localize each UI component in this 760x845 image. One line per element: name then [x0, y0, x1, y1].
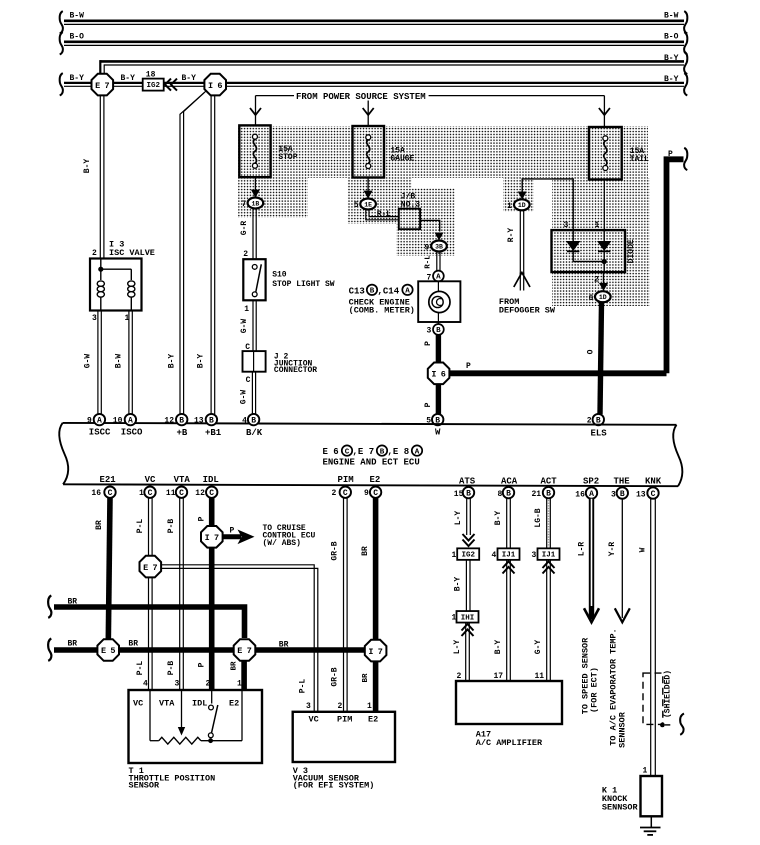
svg-text:17: 17 — [494, 672, 504, 681]
svg-text:A: A — [415, 448, 420, 456]
svg-text:12: 12 — [195, 489, 205, 498]
bus wire B-W — [64, 19, 684, 22]
svg-text:IG2: IG2 — [461, 552, 475, 560]
svg-text:GAUGE: GAUGE — [390, 155, 414, 164]
svg-text:9: 9 — [87, 417, 92, 426]
bus wire B-Y lower — [64, 82, 684, 84]
svg-text:Y-R: Y-R — [608, 542, 617, 557]
svg-text:11: 11 — [166, 489, 176, 498]
svg-text:C: C — [246, 376, 251, 385]
svg-text:O: O — [587, 349, 596, 354]
svg-text:2: 2 — [92, 249, 97, 258]
diode right element — [603, 230, 605, 241]
svg-text:P: P — [466, 362, 471, 371]
fuse 15A STOP — [239, 125, 270, 177]
feed arrow to TAIL fuse — [603, 96, 605, 127]
wire P from tail light system — [667, 159, 684, 373]
wire BR from ECU pin E21 — [108, 498, 110, 650]
svg-text:(FOR ECT): (FOR ECT) — [590, 667, 600, 713]
junction connector I6 (middle) — [428, 363, 450, 385]
svg-text:9: 9 — [425, 243, 430, 252]
svg-text:STOP: STOP — [278, 153, 297, 162]
arrow P to cruise control ECU — [223, 534, 241, 539]
svg-text:C13: C13 — [349, 286, 365, 296]
junction connector E7 — [92, 74, 114, 96]
svg-text:3: 3 — [306, 702, 311, 711]
svg-text:DEFOGGER SW: DEFOGGER SW — [499, 306, 556, 316]
svg-text:B: B — [436, 327, 441, 335]
svg-text:E: E — [143, 563, 148, 573]
svg-text:B: B — [546, 490, 551, 499]
wire B-Y IJ1 to A/C amplifier pin 17 — [503, 562, 515, 569]
wire G-Y IJ1 to A/C amplifier pin 11 — [543, 562, 555, 569]
svg-text:PIM: PIM — [337, 715, 352, 725]
svg-text:6: 6 — [589, 294, 594, 303]
engine and ECT ECU band — [63, 423, 677, 425]
wire BR from I7 to vacuum sensor E2 — [373, 661, 379, 711]
svg-text:THE: THE — [614, 477, 631, 487]
bus wire B-O — [64, 40, 684, 43]
svg-text:B-Y: B-Y — [70, 74, 85, 83]
svg-text:,E 8: ,E 8 — [388, 447, 410, 457]
wire R-L from 3B to check engine lamp — [436, 252, 438, 271]
stop light switch S10 — [243, 259, 265, 300]
svg-text:ISC VALVE: ISC VALVE — [109, 248, 155, 258]
svg-text:B-W: B-W — [115, 354, 124, 369]
ground symbol — [650, 816, 652, 827]
svg-text:(W/ ABS): (W/ ABS) — [263, 539, 301, 548]
vacuum sensor V3 box — [293, 712, 395, 762]
svg-text:B-Y: B-Y — [168, 354, 177, 369]
wire BR from ECU pin E2 — [373, 498, 379, 640]
wire P from I6 to tail wire — [449, 370, 666, 376]
junction connector I6 — [204, 74, 226, 96]
svg-text:P: P — [668, 150, 673, 159]
svg-text:6: 6 — [217, 81, 222, 91]
double chevron toward IG2 — [165, 79, 171, 91]
svg-text:4: 4 — [143, 680, 148, 689]
svg-text:R-L: R-L — [425, 255, 433, 269]
svg-text:C: C — [179, 489, 184, 498]
svg-text:2: 2 — [332, 489, 337, 498]
diode internal junction — [573, 261, 604, 263]
svg-text:L-Y: L-Y — [453, 640, 462, 655]
svg-text:B-O: B-O — [70, 33, 85, 42]
diode box — [552, 230, 626, 272]
svg-text:FROM POWER SOURCE SYSTEM: FROM POWER SOURCE SYSTEM — [296, 92, 426, 102]
svg-text:4: 4 — [492, 551, 497, 560]
svg-text:5: 5 — [354, 201, 359, 210]
svg-text:B-Y: B-Y — [494, 640, 503, 655]
wire from J/B No.3 to connector 3B — [420, 220, 440, 231]
svg-text:G-W: G-W — [240, 319, 249, 334]
svg-text:C: C — [651, 490, 656, 499]
svg-text:E: E — [101, 646, 106, 656]
svg-text:IG2: IG2 — [146, 82, 160, 90]
svg-text:P: P — [424, 341, 433, 346]
svg-text:21: 21 — [532, 490, 542, 499]
svg-text:GR-B: GR-B — [331, 541, 340, 560]
wire W from ECU pin KNK to knock sensor — [650, 499, 652, 776]
svg-text:3: 3 — [611, 490, 616, 499]
svg-text:IJ1: IJ1 — [502, 552, 516, 560]
svg-text:(FOR EFI SYSTEM): (FOR EFI SYSTEM) — [293, 781, 375, 791]
junction connector I7 (lower) — [365, 640, 387, 662]
wire B-Y from I6 to +B (pin 12) — [180, 93, 204, 414]
svg-text:E2: E2 — [370, 475, 381, 485]
svg-text:P: P — [424, 402, 433, 407]
svg-text:7: 7 — [214, 533, 219, 543]
svg-text:13: 13 — [194, 417, 204, 426]
svg-text:ISCC: ISCC — [89, 427, 111, 437]
wire O from 1D to ECU pin ELS — [600, 302, 602, 414]
svg-text:ACA: ACA — [501, 477, 518, 487]
junction connector E7 (lower) — [234, 639, 256, 661]
svg-text:KNK: KNK — [645, 477, 662, 487]
junction connector E7 (on VC wire) — [140, 556, 162, 578]
wire P-L from E7 to vacuum sensor VC — [161, 565, 314, 712]
svg-text:B: B — [466, 490, 471, 499]
svg-text:BR: BR — [361, 546, 370, 556]
svg-text:6: 6 — [441, 370, 446, 380]
svg-text:4: 4 — [242, 417, 247, 426]
svg-text:12: 12 — [164, 417, 174, 426]
wire P-L from ECU pin VC — [148, 498, 150, 556]
svg-text:LG-B: LG-B — [534, 508, 543, 527]
svg-text:+B1: +B1 — [205, 428, 222, 438]
wire from 1D connector to diode pin 3 — [522, 179, 573, 230]
svg-text:DIODE: DIODE — [627, 239, 636, 263]
wire BR from E7 to throttle sensor pin 1 — [241, 661, 247, 690]
svg-text:B: B — [209, 417, 214, 426]
svg-text:I: I — [368, 647, 373, 657]
svg-text:STOP LIGHT SW: STOP LIGHT SW — [272, 280, 335, 289]
svg-text:B-Y: B-Y — [83, 159, 92, 174]
fuse 15A GAUGE — [353, 126, 385, 178]
svg-text:A: A — [97, 417, 102, 426]
svg-text:7: 7 — [153, 563, 158, 573]
svg-text:C: C — [209, 489, 214, 498]
svg-text:B: B — [620, 490, 625, 499]
svg-text:8: 8 — [498, 490, 503, 499]
svg-text:B: B — [370, 288, 375, 296]
svg-text:P-L: P-L — [299, 679, 308, 694]
svg-text:E21: E21 — [100, 475, 117, 485]
svg-text:ISCO: ISCO — [121, 427, 143, 437]
fuse 15A TAIL — [589, 127, 622, 180]
svg-text:2: 2 — [594, 276, 599, 285]
svg-text:VTA: VTA — [174, 475, 191, 485]
svg-text:B-Y: B-Y — [494, 511, 503, 526]
svg-text:11: 11 — [535, 672, 545, 681]
svg-text:L-Y: L-Y — [454, 511, 463, 526]
svg-text:R-Y: R-Y — [507, 228, 516, 243]
svg-text:BR: BR — [231, 661, 239, 671]
svg-text:10: 10 — [113, 417, 123, 426]
svg-text:IDL: IDL — [192, 698, 207, 708]
svg-text:SENSOR: SENSOR — [129, 781, 161, 791]
wire P-L from E7 down to throttle sensor pin 4 — [148, 577, 150, 690]
throttle position sensor T1 box — [129, 690, 263, 763]
svg-text:1: 1 — [237, 680, 242, 689]
svg-text:CONNECTOR: CONNECTOR — [274, 366, 317, 375]
svg-text:P-L: P-L — [136, 519, 145, 534]
svg-text:(COMB. METER): (COMB. METER) — [349, 305, 415, 315]
svg-text:PIM: PIM — [338, 475, 354, 485]
svg-text:E: E — [237, 646, 242, 656]
svg-text:P: P — [230, 526, 235, 535]
svg-text:ACT: ACT — [541, 477, 558, 487]
wire LG-B from ECU pin ACT — [546, 498, 548, 548]
A/C amplifier A17 box — [456, 681, 562, 724]
wire from TAIL fuse to diode pin 1 — [603, 180, 605, 231]
junction connector J2 — [243, 351, 266, 372]
svg-text:BR: BR — [95, 520, 104, 530]
svg-text:B-Y: B-Y — [197, 354, 206, 369]
svg-text:P: P — [198, 662, 207, 667]
wire R-Y from defogger switch — [519, 210, 521, 277]
svg-text:,C14: ,C14 — [378, 286, 400, 296]
svg-text:B: B — [179, 417, 184, 426]
wire STOP fuse to connector 1B — [254, 177, 256, 197]
svg-text:3: 3 — [92, 314, 97, 323]
svg-text:(SHIELDED): (SHIELDED) — [664, 670, 673, 718]
wire B-Y from I6 to +B1 (pin 13) — [210, 95, 212, 414]
svg-text:2: 2 — [338, 702, 343, 711]
svg-text:1B: 1B — [251, 200, 259, 207]
svg-text:SENNSOR: SENNSOR — [602, 803, 639, 813]
svg-text:E: E — [95, 81, 100, 91]
wire G-W ISC pin 3 to ECU pin ISCC — [97, 311, 99, 415]
svg-text:5: 5 — [110, 646, 115, 656]
svg-text:B: B — [506, 490, 511, 499]
shield around knock sensor wire — [643, 673, 663, 724]
feed arrow to STOP fuse — [255, 96, 257, 126]
svg-text:7: 7 — [378, 647, 383, 657]
ISC valve coils — [97, 281, 104, 286]
svg-text:1: 1 — [139, 489, 144, 498]
wire P from I6 to ECU pin W — [436, 384, 441, 414]
svg-text:A: A — [589, 490, 594, 499]
wire B-Y from E7 down to ISC valve — [99, 95, 101, 258]
svg-text:ATS: ATS — [459, 477, 476, 487]
svg-text:E2: E2 — [368, 715, 378, 725]
svg-text:P-B: P-B — [167, 519, 176, 534]
svg-text:E2: E2 — [229, 698, 239, 708]
svg-text:C: C — [343, 489, 348, 498]
wire L-Y from ECU pin ATS — [466, 498, 468, 535]
svg-text:SENNSOR: SENNSOR — [618, 711, 628, 748]
shaded fuse-block region — [238, 126, 648, 178]
svg-text:C: C — [345, 448, 350, 456]
svg-text:13: 13 — [636, 490, 646, 499]
svg-text:BR: BR — [68, 640, 78, 649]
svg-text:2: 2 — [206, 680, 211, 689]
wire L-R from ECU pin SP2 to speed sensor — [589, 499, 594, 619]
svg-text:B-Y: B-Y — [454, 577, 463, 592]
svg-text:1: 1 — [507, 202, 512, 211]
svg-text:3B: 3B — [435, 243, 443, 250]
junction connector I7 (on IDL wire) — [201, 526, 223, 548]
wire L-Y IHI to A/C amplifier pin 2 — [462, 624, 474, 631]
wire G-R to stop light switch — [252, 209, 254, 260]
feed arrow to GAUGE fuse — [367, 101, 369, 127]
svg-text:ELS: ELS — [591, 429, 608, 439]
svg-text:,E 7: ,E 7 — [353, 447, 375, 457]
svg-text:C: C — [108, 489, 113, 498]
svg-text:16: 16 — [91, 489, 101, 498]
svg-text:E 6: E 6 — [323, 447, 339, 457]
throttle sensor potentiometer — [149, 690, 151, 741]
svg-text:B: B — [251, 417, 256, 426]
wire BR branch lower — [48, 639, 51, 661]
svg-text:VC: VC — [309, 715, 319, 725]
svg-text:16: 16 — [575, 490, 585, 499]
diode left element — [572, 230, 574, 241]
svg-text:ENGINE AND ECT ECU: ENGINE AND ECT ECU — [323, 458, 420, 468]
svg-text:+B: +B — [177, 428, 188, 438]
svg-text:1E: 1E — [364, 201, 372, 208]
wire B-Y IG2 to IHI — [465, 560, 467, 612]
wire GR-B from ECU pin PIM to vacuum sensor — [343, 498, 345, 712]
svg-text:B-Y: B-Y — [121, 74, 136, 83]
svg-text:1D: 1D — [518, 202, 526, 209]
svg-text:2: 2 — [243, 250, 248, 259]
feed line FROM POWER SOURCE SYSTEM — [256, 95, 295, 97]
svg-text:G-W: G-W — [240, 390, 249, 405]
svg-text:S10: S10 — [272, 271, 287, 280]
wire B-W ISC pin 1 to ECU pin ISCO — [128, 311, 130, 415]
svg-text:B-Y: B-Y — [664, 75, 679, 84]
wire P from lamp to I6 — [436, 335, 441, 363]
svg-text:P: P — [198, 516, 207, 521]
svg-text:IDL: IDL — [203, 475, 219, 485]
svg-text:3: 3 — [564, 221, 569, 230]
svg-text:1: 1 — [367, 702, 372, 711]
svg-text:7: 7 — [105, 81, 110, 91]
wire bus B-Y upper corner down to E7 — [99, 60, 101, 75]
svg-text:GR-B: GR-B — [331, 667, 340, 686]
svg-text:B-O: B-O — [664, 33, 679, 42]
wire Y-R from ECU pin THE to evaporator temp sensor — [621, 499, 623, 618]
svg-text:SP2: SP2 — [583, 477, 599, 487]
svg-text:A: A — [128, 417, 133, 426]
svg-text:BR: BR — [279, 641, 289, 650]
svg-text:3: 3 — [427, 327, 432, 336]
svg-text:B/K: B/K — [246, 428, 263, 438]
bus wire B-Y upper — [100, 60, 684, 63]
wire BR branch upper — [48, 596, 51, 618]
svg-text:G-W: G-W — [84, 354, 93, 369]
svg-text:7: 7 — [247, 646, 252, 656]
svg-text:3: 3 — [175, 680, 180, 689]
svg-text:W: W — [435, 427, 441, 437]
throttle sensor wiper arrow VTA — [181, 690, 183, 731]
svg-text:A: A — [405, 288, 410, 296]
svg-text:I: I — [208, 81, 213, 91]
wire P from ECU pin IDL — [209, 498, 215, 526]
svg-text:1: 1 — [244, 305, 249, 314]
svg-text:B: B — [380, 448, 385, 456]
svg-text:7: 7 — [242, 200, 247, 209]
svg-text:P-L: P-L — [136, 661, 145, 676]
body ground pigtail — [680, 714, 684, 735]
wire P-B from ECU pin VTA to throttle sensor pin 3 — [179, 498, 181, 690]
svg-text:B-W: B-W — [70, 12, 85, 21]
svg-text:G-R: G-R — [240, 221, 249, 236]
svg-text:VC: VC — [133, 698, 143, 708]
svg-text:I: I — [205, 533, 210, 543]
svg-text:VC: VC — [145, 475, 156, 485]
wire R-L from 1E to junction block No.3 — [366, 210, 399, 220]
svg-text:A/C AMPLIFIER: A/C AMPLIFIER — [476, 738, 543, 748]
svg-text:1: 1 — [595, 221, 600, 230]
svg-text:IHI: IHI — [461, 614, 475, 622]
svg-text:C: C — [373, 489, 378, 498]
svg-text:VTA: VTA — [159, 698, 175, 708]
svg-text:BR: BR — [362, 673, 370, 683]
svg-text:P-B: P-B — [167, 661, 176, 676]
svg-text:1: 1 — [643, 766, 648, 775]
wire P from I7 to throttle sensor pin 2 — [209, 548, 215, 690]
wire GAUGE fuse to connector 1E — [367, 178, 369, 199]
svg-text:2: 2 — [457, 672, 462, 681]
svg-text:I: I — [431, 370, 436, 380]
svg-text:B-Y: B-Y — [182, 74, 197, 83]
svg-text:1: 1 — [452, 551, 457, 560]
svg-text:BR: BR — [128, 640, 138, 649]
svg-text:1D: 1D — [599, 294, 607, 301]
svg-text:B-W: B-W — [664, 12, 679, 21]
throttle sensor idle switch — [211, 690, 213, 704]
svg-text:B-Y: B-Y — [664, 54, 679, 63]
svg-text:W: W — [639, 547, 648, 552]
svg-text:3: 3 — [532, 551, 537, 560]
svg-text:R-L: R-L — [377, 210, 392, 219]
svg-text:C: C — [148, 489, 153, 498]
wire B-Y from ECU pin ACA — [506, 498, 508, 548]
svg-text:9: 9 — [364, 489, 369, 498]
svg-text:L-R: L-R — [578, 542, 587, 557]
svg-text:TAIL: TAIL — [630, 155, 649, 164]
svg-text:IJ1: IJ1 — [542, 552, 556, 560]
svg-text:G-Y: G-Y — [534, 640, 543, 655]
